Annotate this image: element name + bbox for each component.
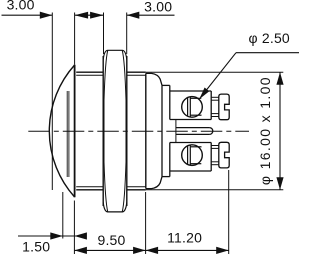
arrow right at 228.7 (11.20) — [216, 247, 229, 254]
clamp screw upper shaft line 2 — [211, 99, 219, 101]
svg-text:φ 2.50: φ 2.50 — [249, 30, 290, 46]
housing shoulder bottom — [146, 177, 162, 189]
extension line x52 — [51, 13, 53, 191]
terminal block upper right edge — [210, 91, 212, 120]
thread minor line bottom-right — [127, 186, 146, 188]
svg-text:3.00: 3.00 — [144, 0, 172, 15]
step bottom — [162, 176, 170, 178]
dimension line 1.50 — [18, 235, 87, 237]
clamp screw upper shaft line 3 — [211, 113, 219, 115]
clamp screw upper head — [219, 94, 229, 120]
terminal block upper bottom edge — [170, 119, 211, 121]
terminal screw lower circle — [182, 145, 203, 166]
extension line y72 right — [146, 71, 283, 73]
actuator slot top line — [176, 127, 210, 129]
thread major line top-right — [127, 71, 146, 73]
button inner edge line 1 — [66, 91, 68, 177]
terminal screw upper circle — [182, 97, 203, 118]
terminal screw lower top chord — [190, 146, 201, 148]
terminal screw upper bottom chord — [190, 114, 201, 116]
actuator slot round end — [209, 128, 212, 135]
dimension line between 74.6 and 104 — [75, 14, 104, 16]
hex nut face curve right — [122, 50, 126, 212]
terminal block lower bottom edge — [170, 170, 211, 172]
leader line diagonal — [201, 53, 237, 98]
arrow right at 62.8 (1.50) — [50, 232, 63, 239]
arrow left at 74.4 (9.50) — [74, 247, 87, 254]
terminal block upper left edge — [169, 85, 171, 119]
extension line x104 upper — [103, 13, 105, 55]
svg-text:φ 16.00 x 1.00: φ 16.00 x 1.00 — [257, 76, 273, 185]
svg-text:3.00: 3.00 — [7, 0, 35, 13]
thread minor line top-left — [76, 74, 103, 76]
clamp screw lower shaft line 4 — [211, 164, 219, 166]
hex nut left edge — [102, 56, 104, 206]
thread major line top-left — [76, 71, 103, 73]
clamp screw lower shaft line 1 — [211, 145, 219, 147]
step top — [162, 84, 170, 86]
arrow up at 280,72.2 — [276, 72, 283, 85]
svg-text:9.50: 9.50 — [97, 232, 125, 248]
terminal screw upper slot line 1 — [187, 98, 189, 117]
hex nut right edge — [126, 56, 128, 206]
arrow left at 74.6 — [75, 12, 89, 19]
extension line x74.6 upper — [74, 13, 76, 65]
arrow left at 74.4 (1.50) — [74, 232, 87, 239]
extension line x127 upper — [126, 13, 128, 55]
arrow down at 280,189.8 — [276, 177, 283, 190]
terminal block lower right edge — [210, 143, 212, 172]
hex nut top cap — [103, 50, 127, 59]
thread major line bottom-left — [76, 189, 103, 191]
button inner edge line 2 — [68, 91, 70, 177]
dimension line 3.00 left — [2, 14, 53, 16]
terminal block lower top edge — [170, 142, 211, 144]
arrow right at 104 — [90, 12, 104, 19]
collar face — [161, 85, 163, 176]
svg-text:11.20: 11.20 — [167, 229, 202, 245]
terminal screw upper top chord — [190, 97, 201, 99]
clamp screw lower head — [219, 142, 229, 168]
housing shoulder top — [146, 73, 162, 85]
housing back face — [145, 73, 147, 188]
dome arc (button face) — [49, 65, 74, 197]
arrow right at 52.3 — [40, 12, 53, 19]
bezel rim face — [74, 65, 76, 198]
centerline — [28, 130, 249, 132]
clamp screw upper shaft line 1 — [211, 96, 219, 98]
svg-text:1.50: 1.50 — [22, 238, 50, 254]
arrow left at 127 — [127, 12, 140, 19]
leader line horizontal — [236, 52, 299, 54]
clamp screw upper shaft line 4 — [211, 116, 219, 118]
hex nut face curve left — [104, 50, 108, 212]
divider between blocks — [175, 120, 177, 143]
thread major line bottom-right — [127, 189, 146, 191]
terminal screw upper slot line 2 — [189, 97, 191, 117]
thread minor line bottom-left — [76, 186, 103, 188]
actuator slot bottom line — [176, 133, 210, 135]
extension line x228.7 lower — [228, 170, 230, 254]
arrow right at 145.6 (9.50) — [133, 247, 146, 254]
extension line x63 lower — [62, 192, 64, 239]
arrow left at 145.6 (11.20) — [146, 247, 159, 254]
dimension line 3.00 right tail — [127, 14, 175, 16]
dimension line 9.50 / 11.20 — [74, 249, 228, 251]
leader arrowhead — [199, 88, 209, 100]
terminal block lower left edge — [169, 143, 171, 177]
thread minor line top-right — [127, 74, 146, 76]
terminal block upper top edge — [170, 90, 211, 92]
extension line y190 right — [146, 189, 283, 191]
hex nut bottom cap — [103, 203, 127, 212]
extension line x145.6 lower — [145, 192, 147, 254]
extension line x74.4 lower — [73, 201, 75, 255]
dimension line phi16 vertical — [279, 72, 281, 190]
terminal screw lower slot line 2 — [189, 145, 191, 165]
clamp screw lower shaft line 2 — [211, 147, 219, 149]
terminal screw lower slot line 1 — [187, 146, 189, 165]
terminal screw lower bottom chord — [190, 163, 201, 165]
clamp screw lower shaft line 3 — [211, 161, 219, 163]
